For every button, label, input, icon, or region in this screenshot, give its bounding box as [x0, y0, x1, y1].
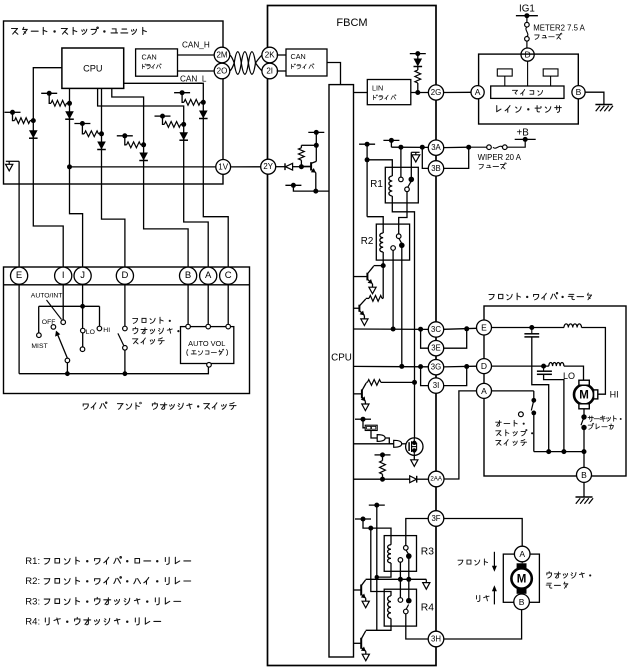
diode D2AA: [410, 476, 417, 483]
resistor cell5: [163, 116, 165, 124]
wire rail to B: [583, 452, 585, 468]
node J branch: [80, 304, 85, 309]
connector 2K: [262, 47, 278, 63]
resistor cell1: [13, 112, 15, 120]
wire CPU to gate2: [354, 443, 394, 445]
connector B (motor): [577, 467, 592, 482]
svg-text:2O: 2O: [217, 67, 228, 76]
MOSFET Q4 (relay driver): [406, 438, 423, 455]
svg-text:R1:: R1:: [25, 556, 40, 567]
connector A (washer): [514, 546, 530, 562]
wire R1 NC to ground: [410, 152, 412, 177]
svg-text:FBCM: FBCM: [336, 17, 367, 29]
svg-text:A: A: [205, 270, 212, 281]
relay R4 contact NC: [406, 598, 412, 604]
washer switch lower contact: [123, 346, 128, 351]
connector 3B: [428, 161, 443, 176]
pull-up tick 2Y: [308, 131, 324, 133]
transistor Q5 (T4): [360, 585, 362, 596]
wire CAN_L to 2O: [178, 70, 215, 72]
wire CPU to 3G: [354, 365, 429, 367]
connector 3E: [428, 341, 443, 356]
rain sensor box: [479, 54, 579, 124]
wire: [417, 54, 419, 59]
label front washer switch: [133, 319, 138, 324]
relay R3 contact NO: [404, 546, 409, 551]
wire R1 coil supply: [366, 144, 368, 217]
svg-text:R1: R1: [370, 179, 383, 190]
node emitter: [313, 189, 318, 194]
connector A (motor): [477, 383, 492, 398]
wire to 3I: [421, 367, 429, 386]
circuit breaker: [581, 414, 586, 419]
relay R3 contact NC: [406, 553, 412, 559]
wire CPU to 2AA: [354, 478, 410, 480]
wire CPU to LIN driver: [354, 92, 368, 94]
node cell1: [31, 118, 36, 123]
svg-text:R2: R2: [361, 236, 374, 247]
MIST/HI branch wire: [39, 305, 100, 307]
wire CPU pin to cell1: [33, 68, 62, 121]
relay R4 box: [384, 589, 416, 626]
diode LIN pull-up: [414, 59, 423, 67]
svg-text:3B: 3B: [431, 164, 441, 173]
wire 3G to D: [444, 365, 477, 368]
wire gate2 to MOSFET: [402, 443, 406, 445]
node 1V bus: [67, 164, 72, 169]
connector 2M: [214, 47, 230, 63]
wire 3F to washer A: [444, 519, 522, 547]
svg-text:CPU: CPU: [83, 64, 102, 74]
wire C to encoder: [227, 285, 229, 325]
resistor 2AA pull-up: [380, 461, 386, 475]
ground symbol (start-stop unit): [6, 160, 19, 162]
transistor Q1 (R2 driver): [366, 273, 368, 281]
diode D2Y (cathode left): [285, 163, 292, 170]
wire coil supply: [363, 519, 391, 545]
svg-text:B: B: [519, 597, 525, 607]
encoder pin A: [206, 324, 211, 329]
CPU U1 (start-stop unit): [62, 48, 124, 88]
wire R3 NC down: [408, 559, 410, 599]
connector C (switch): [220, 267, 237, 284]
svg-text:3G: 3G: [431, 363, 441, 372]
node R2 coil: [381, 263, 386, 268]
wire cell5 to switch A: [184, 124, 209, 267]
svg-text:J: J: [80, 270, 85, 281]
AUTO VOL encoder box: [181, 327, 234, 364]
wire base: [301, 166, 311, 168]
connector J (switch): [74, 267, 91, 284]
gate driver IC: [365, 425, 377, 430]
wire R2 coil to resistor: [382, 266, 384, 299]
ground arrow contacts net: [425, 579, 427, 582]
wire 3A net: [391, 146, 428, 148]
wire R2 coil supply: [367, 217, 383, 233]
diode cell5: [179, 132, 188, 140]
node: [406, 577, 411, 582]
svg-text:M: M: [517, 574, 527, 586]
pull-up tick cell6: [174, 92, 190, 94]
relay R3 common: [398, 558, 403, 563]
svg-text:LO: LO: [86, 329, 95, 336]
svg-text:3A: 3A: [431, 143, 441, 152]
node LIN 2G: [415, 90, 420, 95]
diode cell6: [199, 111, 208, 119]
node D cap: [541, 364, 546, 369]
buffer gate 2: [394, 440, 402, 447]
wire R4 drive: [376, 505, 378, 630]
pull-up tick cell5: [155, 115, 171, 117]
contact LO: [81, 328, 86, 333]
relay R3 blade: [406, 550, 409, 554]
diode cell1: [29, 130, 38, 138]
wire CPU pin to cell5: [98, 88, 184, 124]
transistor Q6 (T5): [360, 638, 362, 649]
rotary switch blade: [56, 332, 67, 359]
wire R4 coil bottom: [366, 626, 391, 630]
motor M (wiper): [574, 385, 594, 405]
ground bus wire (switch): [18, 285, 20, 374]
relay R4 blade: [406, 605, 409, 610]
connector 2I: [262, 63, 278, 79]
node 3A-3B: [420, 145, 425, 150]
wire R2 coil to T1: [382, 260, 384, 266]
wire I to AUTO/INT contact: [62, 285, 64, 321]
wire to 3A: [390, 140, 392, 147]
svg-text:2G: 2G: [431, 88, 441, 97]
wire 3A to R1 contact: [400, 147, 402, 177]
contact OFF: [51, 325, 56, 330]
svg-text:3I: 3I: [433, 381, 440, 390]
label rear direction: [476, 595, 479, 601]
buffer gate 1: [377, 435, 385, 442]
node R2NC-3G: [399, 364, 404, 369]
wire: [417, 67, 419, 71]
wire cell4 to switch B: [144, 145, 189, 267]
label front direction: [458, 560, 463, 565]
wire collector: [315, 132, 317, 161]
washer switch blade: [118, 333, 124, 345]
wire E net: [492, 327, 565, 329]
relay R1 box: [385, 167, 418, 203]
svg-text:2M: 2M: [216, 51, 227, 60]
front wiper motor box: [484, 306, 626, 476]
wire D net: [492, 365, 549, 367]
wire R1 common to R2 contact: [399, 192, 407, 234]
connector 3G: [428, 360, 443, 375]
wire B to 3H: [444, 610, 522, 639]
connector E (switch): [11, 267, 28, 284]
pull-up tick R4 drive: [369, 504, 385, 506]
node: [375, 575, 379, 579]
wire R3 coil bottom: [377, 571, 391, 577]
brush right: [594, 390, 598, 399]
inductor E: [564, 324, 582, 328]
wire B to ground: [585, 92, 604, 104]
wire M to breaker: [583, 409, 585, 417]
wire: [417, 83, 419, 93]
sensor element right: [543, 69, 558, 76]
wire to 3I: [444, 367, 467, 386]
node: [398, 577, 403, 582]
wire: [301, 144, 316, 146]
wire cell3 to switch D: [102, 134, 125, 267]
svg-text:CAN: CAN: [291, 52, 306, 61]
diode cell3: [97, 142, 106, 150]
connector 3F: [428, 511, 444, 527]
svg-text:HI: HI: [103, 327, 110, 334]
label rain sensor: [497, 106, 501, 112]
ground arrow Q5: [365, 598, 367, 601]
svg-text:A: A: [519, 549, 525, 559]
washer brush top: [517, 563, 527, 568]
relay R2 contact NO: [396, 234, 401, 239]
pull-up tick 3A: [383, 139, 399, 141]
motor M (washer): [511, 568, 531, 588]
node 3G-3I harness: [464, 364, 469, 369]
node: [314, 143, 319, 148]
transistor Q2Y: [310, 162, 312, 170]
wire to 3E: [444, 329, 467, 348]
wire 1V to 2Y: [231, 166, 261, 168]
label start-stop unit (katakana title): [12, 29, 18, 35]
pull-up tick cell3: [74, 123, 90, 125]
svg-text:LIN: LIN: [372, 84, 383, 93]
svg-text:2K: 2K: [265, 51, 275, 60]
node washer bus: [123, 371, 128, 376]
node E cap: [529, 325, 534, 330]
svg-text:IG1: IG1: [519, 4, 535, 15]
svg-text:3F: 3F: [431, 514, 440, 523]
FBCM box: [268, 6, 437, 666]
twisted pair CAN bus: [230, 52, 263, 75]
svg-text:CAN: CAN: [142, 53, 157, 62]
wire R4 common to 3H: [406, 614, 428, 639]
relay R2 coil: [380, 233, 383, 252]
wire R3 common down: [399, 562, 401, 598]
leader line AUTO/INT: [47, 300, 62, 320]
node cell6: [201, 100, 206, 105]
svg-text:R4: R4: [421, 603, 434, 614]
svg-text:+B: +B: [517, 128, 530, 139]
microcomputer box: [491, 86, 564, 98]
ground arrow Q6: [365, 651, 367, 654]
node fuse: [466, 145, 471, 150]
washer motor frame: [503, 554, 539, 602]
CAN driver IC (FBCM): [286, 49, 327, 76]
svg-text:C: C: [225, 270, 232, 281]
svg-text:B: B: [576, 87, 582, 97]
wire ground to switch E: [18, 161, 20, 267]
connector D (motor): [477, 359, 492, 374]
wire LIN driver to 2G: [411, 92, 429, 94]
wire gate1 to gate2: [385, 438, 394, 444]
wire CPU pin to cell4: [112, 88, 144, 144]
wire D cap down: [544, 374, 564, 451]
ground arrow Q1: [372, 284, 374, 287]
svg-text:HI: HI: [610, 390, 619, 400]
wire cell6 to switch C: [203, 102, 228, 267]
wire R2 common to 3C net: [392, 250, 394, 329]
wire CPU pin to cell2: [69, 88, 71, 103]
LIN driver IC: [367, 80, 411, 105]
wiper and washer switch box: [4, 267, 250, 394]
wire A to encoder: [207, 285, 209, 325]
connector A (switch): [200, 267, 217, 284]
wire driver to gate1: [371, 431, 377, 439]
wire: [382, 474, 384, 479]
wire D to microcomputer: [527, 61, 529, 86]
node 2AA: [380, 477, 385, 482]
wire to R4 coil: [371, 528, 391, 596]
relay R1 blade: [408, 181, 411, 187]
svg-text:2Y: 2Y: [263, 162, 273, 171]
contact INT: [80, 347, 85, 352]
connector D (switch): [116, 267, 133, 284]
relay R1 common: [405, 187, 410, 192]
wire to 3B: [422, 147, 428, 168]
wire diode to node: [293, 166, 302, 168]
encoder bottom pin: [207, 363, 212, 368]
brush bottom: [579, 404, 589, 409]
svg-text:A: A: [481, 386, 487, 396]
washer brush bottom: [517, 589, 527, 594]
svg-text:R3:: R3:: [25, 596, 40, 607]
connector E (motor): [477, 320, 492, 335]
node R1/R2 supply: [365, 157, 370, 162]
tick 2Y emitter: [285, 184, 301, 186]
1V bus wire: [70, 166, 216, 168]
wire CAN driver to CPU: [327, 63, 341, 85]
svg-text:CPU: CPU: [331, 353, 352, 364]
wire cell1 to switch I: [33, 121, 63, 267]
wire CPU pin to cell6: [124, 83, 204, 102]
wire J down: [82, 285, 84, 329]
wire 2K to CAN driver: [277, 54, 286, 56]
wire emitter to CPU: [315, 173, 317, 192]
wire fuse to 3A: [444, 146, 469, 148]
wire breaker to rail: [583, 428, 585, 452]
svg-text:CAN_H: CAN_H: [182, 41, 210, 50]
svg-text:METER2 7.5 A: METER2 7.5 A: [533, 23, 585, 32]
resistor 2Y: [300, 160, 302, 167]
node 3G-3I: [418, 364, 423, 369]
connector 3I: [428, 378, 443, 393]
wire: [363, 419, 365, 428]
connector D (rain sensor): [521, 48, 534, 61]
start-stop unit box: [4, 21, 224, 184]
svg-text:AUTO/INT: AUTO/INT: [31, 293, 63, 300]
node R1 coil sense: [412, 380, 417, 385]
connector 3H: [428, 631, 444, 647]
motor ground rail: [534, 451, 584, 453]
label front wiper motor: [489, 295, 494, 300]
wire 3C to E: [444, 328, 477, 329]
ground arrow Q3: [364, 401, 366, 404]
encoder pin C: [226, 324, 231, 329]
resistor cell4: [125, 136, 127, 145]
svg-text:2AA: 2AA: [430, 476, 443, 483]
connector A (rain sensor): [471, 86, 484, 99]
resistor cell6: [182, 93, 184, 103]
svg-text:LO: LO: [563, 371, 575, 381]
diode cell4: [139, 153, 148, 161]
wire 3F to R3: [406, 519, 428, 546]
wire D to washer switch: [124, 285, 126, 327]
sensor element left: [497, 69, 512, 76]
relay R2 contact NC: [399, 243, 405, 249]
node cell2: [67, 101, 72, 106]
svg-text:E: E: [481, 323, 487, 333]
wire E to HI: [582, 328, 606, 395]
svg-text:OFF: OFF: [42, 319, 56, 326]
ground arrow R1: [412, 155, 420, 162]
svg-text:CAN_L: CAN_L: [180, 75, 207, 84]
connector B (switch): [180, 267, 197, 284]
fuse WIPER 20A: [507, 139, 525, 147]
svg-text:D: D: [121, 270, 128, 281]
svg-text:A: A: [475, 87, 481, 97]
relay R4 contact NO: [398, 598, 403, 603]
wire 2I to CAN driver: [277, 70, 286, 72]
svg-text:B: B: [185, 270, 191, 281]
svg-text:MIST: MIST: [31, 343, 47, 350]
wire: [417, 478, 429, 480]
wire CPU pin to cell3: [101, 88, 103, 133]
wire 2Y to diode: [276, 166, 285, 168]
svg-text:E: E: [16, 270, 22, 281]
relay R3 coil: [388, 545, 391, 563]
auto stop switch: [492, 390, 534, 392]
resistor cell3: [82, 124, 84, 134]
resistor Q2 drive: [382, 297, 383, 299]
node cell3: [99, 131, 104, 136]
connector B (washer): [514, 594, 530, 610]
connector 3A: [428, 140, 443, 155]
wire R2 NC to 3G net: [401, 248, 403, 367]
node R2-3C: [391, 327, 396, 332]
node 3A-R1: [398, 145, 403, 150]
transistor Q2: [358, 305, 360, 312]
pull-up tick 2AA: [375, 454, 391, 456]
wire washer switch to bus: [124, 350, 126, 374]
label wiper and washer switch: [83, 404, 88, 409]
wire D to LO brush: [564, 366, 584, 380]
contacts net wire: [366, 578, 427, 580]
contact MIST: [37, 333, 42, 338]
relay R4 coil: [388, 596, 391, 619]
svg-text:3H: 3H: [431, 635, 441, 644]
connector 2Y: [261, 159, 276, 174]
svg-text:M: M: [579, 390, 589, 402]
svg-text:D: D: [481, 361, 487, 371]
washer switch upper contact: [123, 326, 128, 331]
pull-up tick gate driver: [355, 418, 371, 420]
svg-text:R3: R3: [421, 547, 434, 558]
resistor cell2: [49, 93, 51, 103]
svg-text:B: B: [581, 470, 587, 480]
ground arrow Q2: [363, 315, 365, 319]
svg-text:1V: 1V: [218, 162, 228, 171]
contact AUTO/INT: [61, 320, 66, 325]
contact HI: [97, 326, 102, 331]
CAN driver IC (start-stop unit): [136, 49, 178, 76]
node 2Y base: [299, 164, 304, 169]
resistor LIN pull-up: [415, 70, 421, 83]
svg-text:R2:: R2:: [25, 576, 40, 587]
ground arrow MOSFET: [411, 460, 418, 467]
